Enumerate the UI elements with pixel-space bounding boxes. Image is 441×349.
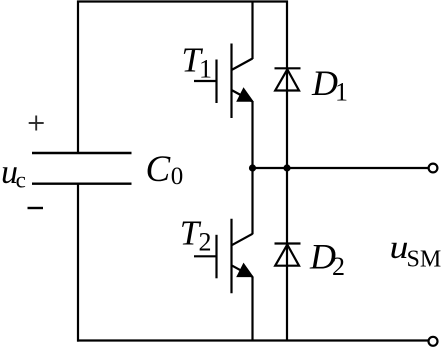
terminal lower output: [429, 337, 438, 346]
transistor T1: [194, 44, 254, 119]
svg-text:D: D: [311, 63, 338, 103]
capacitor C0: [32, 153, 132, 184]
svg-text:0: 0: [171, 163, 184, 190]
wire bottom rail: [77, 339, 429, 341]
diode D2: [275, 244, 301, 266]
svg-text:1: 1: [335, 78, 348, 107]
wire T2 emitter to bottom rail: [251, 277, 253, 341]
svg-text:2: 2: [199, 228, 212, 257]
svg-text:SM: SM: [407, 247, 441, 273]
wire top rail: [77, 0, 288, 2]
svg-text:c: c: [16, 167, 26, 192]
terminal upper output: [429, 164, 438, 173]
svg-text:1: 1: [199, 55, 212, 84]
wire middle rail to output: [253, 167, 429, 169]
wire T1 collector lead: [251, 1, 253, 60]
wire T2 collector lead: [251, 168, 253, 234]
transistor T2: [194, 219, 254, 293]
wire left vertical upper: [77, 1, 79, 154]
label + polarity: [29, 116, 44, 131]
wire diode branch vertical: [286, 1, 288, 341]
svg-text:C: C: [146, 149, 172, 190]
wire left vertical lower: [77, 184, 79, 342]
label - polarity: [28, 207, 44, 209]
diode D1: [275, 68, 301, 90]
svg-text:2: 2: [332, 252, 345, 281]
node B junction dot: [283, 164, 290, 171]
wire T1 emitter to node A: [251, 101, 253, 168]
node A junction dot: [249, 164, 256, 171]
